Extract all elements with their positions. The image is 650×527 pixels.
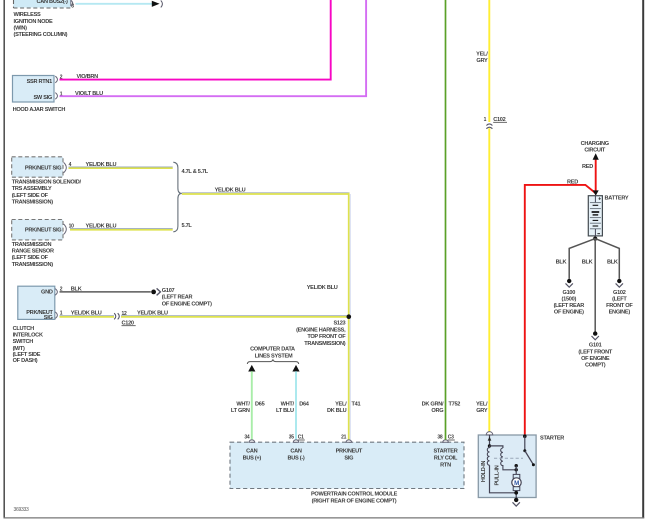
svg-text:ENGINE): ENGINE)	[609, 310, 631, 316]
svg-text:CAN: CAN	[246, 449, 258, 455]
ground G102 caption	[606, 290, 633, 316]
clutch switch caption	[13, 326, 43, 364]
svg-text:369333: 369333	[14, 507, 30, 513]
wire YEL/DK BLU vertical run to PCM pin 21	[349, 193, 351, 440]
computer data lines brace	[247, 359, 298, 364]
svg-text:(LEFT SIDE OF: (LEFT SIDE OF	[12, 193, 49, 199]
svg-text:YEL/DK BLU: YEL/DK BLU	[137, 311, 168, 317]
svg-text:CAN BUS2(-): CAN BUS2(-)	[37, 0, 69, 5]
border frame right	[642, 0, 644, 518]
PCM pin bump 38	[443, 440, 449, 442]
starter ground symbol	[513, 498, 520, 506]
svg-text:WHT/: WHT/	[281, 402, 295, 408]
svg-text:WHT/: WHT/	[236, 402, 250, 408]
svg-text:SW SIG: SW SIG	[33, 95, 52, 101]
PCM caption	[311, 491, 398, 504]
connector name C102	[493, 117, 507, 123]
wire YEL/DK BLU from clutch pin 1 to C120	[60, 316, 115, 317]
svg-text:TRANSMISSION): TRANSMISSION)	[12, 200, 54, 206]
merge brace	[173, 162, 182, 232]
svg-text:(LEFT SIDE OF: (LEFT SIDE OF	[12, 255, 49, 261]
range sensor pin bracket	[64, 224, 67, 234]
off-page arrow CAN bus (-)	[292, 365, 299, 372]
svg-text:OF DASH): OF DASH)	[13, 358, 38, 364]
in-line connector C120 symbol	[114, 313, 119, 319]
off-page arrow for CAN wire	[152, 1, 160, 7]
svg-text:RED: RED	[567, 179, 578, 185]
PCM connector name C3	[448, 435, 455, 441]
wire BLK to G101	[594, 239, 596, 332]
computer data lines system caption	[250, 347, 295, 360]
svg-text:FRONT OF: FRONT OF	[606, 303, 633, 309]
switch blade	[525, 451, 534, 465]
svg-text:YEL/: YEL/	[476, 402, 488, 408]
clutch GND pin bracket	[55, 289, 57, 296]
svg-text:(ENGINE HARNESS,: (ENGINE HARNESS,	[296, 327, 346, 333]
solenoid pin bracket	[64, 162, 67, 172]
switch feed node	[523, 434, 527, 438]
PCM pin label CAN BUS (+)	[243, 449, 262, 462]
svg-text:POWERTRAIN CONTROL MODULE: POWERTRAIN CONTROL MODULE	[311, 491, 398, 497]
svg-text:PULL-IN: PULL-IN	[494, 465, 500, 485]
svg-text:SIG: SIG	[44, 315, 53, 321]
PCM pin bump 35	[293, 440, 299, 442]
svg-text:OF ENGINE COMPT): OF ENGINE COMPT)	[162, 301, 212, 307]
wire hold-in coil to bottom	[490, 465, 517, 493]
pull-in coil	[501, 448, 517, 470]
wire RED from starter to battery	[525, 185, 596, 436]
svg-text:TRS ASSEMBLY: TRS ASSEMBLY	[12, 186, 52, 192]
svg-text:OF ENGINE): OF ENGINE)	[554, 310, 584, 316]
junction node pull-in to motor	[515, 468, 518, 471]
svg-text:DK GRN/: DK GRN/	[422, 402, 444, 408]
svg-text:CHARGING: CHARGING	[581, 141, 609, 147]
svg-text:GND: GND	[41, 290, 53, 296]
svg-text:HOOD AJAR SWITCH: HOOD AJAR SWITCH	[13, 107, 66, 113]
svg-text:T41: T41	[352, 402, 361, 408]
svg-text:SIG: SIG	[344, 456, 353, 462]
svg-text:34: 34	[244, 435, 250, 441]
svg-text:STARTER: STARTER	[433, 449, 457, 455]
wire BLK from clutch GND	[60, 291, 151, 293]
pin arrow into starter connector	[488, 437, 492, 441]
mechanical linkage dashed	[494, 457, 523, 459]
pin bracket 1	[55, 93, 57, 100]
svg-text:YEL/DK BLU: YEL/DK BLU	[307, 285, 338, 291]
svg-text:G100: G100	[563, 290, 576, 296]
svg-text:YEL/DK BLU: YEL/DK BLU	[86, 224, 117, 230]
svg-text:21: 21	[341, 435, 347, 441]
svg-text:G101: G101	[589, 343, 602, 349]
off-page arrow CAN bus (+)	[248, 365, 255, 372]
PCM pin label CAN BUS (-)	[288, 449, 305, 462]
off-page connector bracket	[161, 0, 163, 7]
svg-text:WIRELESS: WIRELESS	[14, 12, 42, 18]
wire YEL/DK BLU from C120 to S123	[121, 316, 350, 317]
wire label YEL/DK BLU (at PCM)	[327, 402, 347, 415]
wire from connector to coils	[489, 435, 491, 446]
wire RED to charging circuit	[595, 160, 597, 193]
junction node at starter bottom	[514, 491, 518, 495]
charging circuit caption	[581, 141, 609, 153]
ground G102 symbol	[616, 279, 623, 287]
wire label DK GRN/ORG (at PCM)	[422, 402, 444, 415]
svg-text:GRY: GRY	[476, 408, 488, 414]
starter feed connector bump	[486, 432, 493, 435]
svg-text:LT GRN: LT GRN	[231, 408, 250, 414]
PCM pin bump 21	[346, 440, 352, 442]
wire VIO/LT BLU (violet)	[60, 0, 367, 96]
svg-text:35: 35	[289, 435, 295, 441]
wire DK GRN/ORG vertical run to PCM pin 38	[445, 0, 447, 440]
transmission solenoid / TRS assembly box	[12, 157, 63, 177]
connector name C120	[122, 320, 136, 326]
svg-text:G102: G102	[613, 290, 626, 296]
svg-text:PRK/NEUT SIG: PRK/NEUT SIG	[25, 228, 61, 234]
svg-text:PRK/NEUT SIG: PRK/NEUT SIG	[25, 166, 61, 172]
range sensor caption	[12, 242, 54, 268]
svg-text:RTN: RTN	[440, 463, 451, 469]
starter box	[478, 435, 536, 498]
svg-text:5.7L: 5.7L	[182, 223, 193, 229]
svg-text:YEL/DK BLU: YEL/DK BLU	[86, 162, 117, 168]
svg-text:BLK: BLK	[556, 260, 567, 266]
junction node at coil tops	[488, 444, 491, 447]
wire WHT/LT GRN	[251, 371, 253, 440]
svg-text:D64: D64	[299, 402, 310, 408]
svg-text:TOP FRONT OF: TOP FRONT OF	[307, 334, 346, 340]
svg-text:LINES SYSTEM: LINES SYSTEM	[255, 354, 293, 360]
battery	[588, 196, 602, 236]
starter motor M	[512, 474, 521, 490]
svg-text:COMPT): COMPT)	[585, 363, 606, 369]
wire WHT/LT BLU	[295, 371, 297, 440]
svg-text:38: 38	[437, 435, 443, 441]
switch contact node	[532, 463, 535, 466]
wire YEL/DK BLU from range sensor pin 10	[70, 229, 173, 230]
PCM pin label STARTER RLY COIL RTN	[433, 449, 458, 469]
svg-text:YEL/: YEL/	[476, 52, 488, 58]
wire VIO/BRN (magenta)	[60, 0, 331, 80]
hood ajar switch box	[13, 76, 55, 103]
svg-text:CAN: CAN	[290, 449, 302, 455]
svg-text:IGNITION NODE: IGNITION NODE	[14, 19, 53, 25]
wire label YEL/GRY (upper)	[476, 52, 488, 65]
wire CAN BUS2 (light blue)	[76, 3, 153, 5]
svg-text:VIO/LT BLU: VIO/LT BLU	[75, 91, 103, 97]
pin bracket 2	[55, 76, 57, 83]
ground G107 symbol	[151, 288, 160, 295]
off-page arrow to charging circuit	[593, 153, 599, 160]
svg-text:BLK: BLK	[582, 260, 593, 266]
WIN pin bracket	[71, 0, 73, 6]
svg-text:(LEFT REAR: (LEFT REAR	[162, 295, 193, 301]
svg-text:SWITCH: SWITCH	[13, 339, 34, 345]
svg-text:+: +	[598, 197, 601, 203]
ground G100 symbol	[566, 279, 573, 287]
switch pivot node	[523, 449, 526, 452]
PCM pin label PRK/NEUT SIG	[336, 449, 363, 462]
svg-text:1: 1	[484, 117, 487, 123]
junction node above motor	[515, 464, 518, 467]
svg-text:RLY COIL: RLY COIL	[434, 456, 458, 462]
svg-text:STARTER: STARTER	[540, 436, 564, 442]
svg-text:(WIN): (WIN)	[14, 25, 28, 31]
wire YEL/DK BLU from solenoid pin 4	[69, 167, 173, 168]
wire to pull-in coil top	[490, 446, 503, 448]
svg-text:CIRCUIT: CIRCUIT	[584, 147, 606, 153]
wire label WHT/LT BLU	[276, 402, 295, 415]
splice S123 caption	[296, 321, 346, 347]
svg-text:INTERLOCK: INTERLOCK	[13, 332, 43, 338]
svg-text:YEL/DK BLU: YEL/DK BLU	[215, 188, 246, 194]
svg-text:(1500): (1500)	[562, 296, 577, 302]
battery negative junction node	[593, 237, 597, 241]
svg-text:S123: S123	[333, 321, 345, 327]
svg-text:DK BLU: DK BLU	[327, 408, 347, 414]
powertrain control module box	[230, 442, 464, 488]
ground G101 caption	[578, 343, 612, 369]
svg-text:RED: RED	[582, 164, 593, 170]
svg-text:PRK/NEUT: PRK/NEUT	[336, 449, 363, 455]
svg-text:OF ENGINE: OF ENGINE	[581, 356, 610, 362]
switch wire	[524, 436, 526, 451]
svg-text:3: 3	[71, 4, 74, 10]
svg-text:COMPUTER DATA: COMPUTER DATA	[250, 347, 295, 353]
svg-text:GRY: GRY	[476, 58, 488, 64]
svg-text:YEL/DK BLU: YEL/DK BLU	[71, 311, 102, 317]
svg-text:HOLD-IN: HOLD-IN	[481, 461, 487, 483]
transmission range sensor box	[12, 220, 63, 240]
wire YEL/DK BLU merged horizontal run	[182, 193, 350, 194]
wire label YEL/GRY (at starter)	[476, 402, 488, 415]
clutch SIG pin bracket	[55, 312, 57, 319]
PCM pin bump 34	[249, 440, 255, 442]
svg-text:CLUTCH: CLUTCH	[13, 326, 35, 332]
svg-text:4.7L & 5.7L: 4.7L & 5.7L	[182, 169, 209, 175]
svg-text:TRANSMISSION): TRANSMISSION)	[12, 262, 54, 268]
wire BLK to G102	[595, 239, 619, 279]
splice node S123	[347, 314, 352, 319]
ground G101 symbol	[592, 331, 599, 339]
svg-text:ORG: ORG	[431, 408, 443, 414]
svg-text:BUS (-): BUS (-)	[288, 456, 305, 462]
svg-text:T752: T752	[449, 402, 461, 408]
solenoid caption	[12, 180, 82, 206]
svg-text:BATTERY: BATTERY	[605, 196, 629, 202]
svg-text:BUS (+): BUS (+)	[243, 456, 262, 462]
svg-text:M: M	[514, 480, 519, 487]
svg-text:(LEFT FRONT: (LEFT FRONT	[578, 349, 612, 355]
wire motor to ground	[515, 491, 517, 499]
svg-text:TRANSMISSION SOLENOID/: TRANSMISSION SOLENOID/	[12, 180, 82, 186]
hold-in coil	[487, 446, 489, 465]
wire to motor	[515, 466, 517, 475]
wire YEL/GRY vertical run to starter	[488, 0, 490, 432]
svg-text:VIO/BRN: VIO/BRN	[77, 74, 99, 80]
clutch interlock switch box	[18, 286, 55, 319]
border frame left	[3, 0, 5, 518]
svg-text:TRANSMISSION: TRANSMISSION	[12, 242, 52, 248]
in-line connector C102 symbol	[486, 124, 492, 129]
svg-text:TRANSMISSION): TRANSMISSION)	[304, 341, 346, 347]
svg-text:(LEFT: (LEFT	[612, 296, 627, 302]
svg-text:BLK: BLK	[71, 286, 82, 292]
ground G100 caption	[554, 290, 585, 316]
svg-text:YEL/: YEL/	[335, 402, 347, 408]
wire BLK to G100	[569, 239, 595, 279]
svg-text:(LEFT REAR: (LEFT REAR	[554, 303, 585, 309]
svg-text:LT BLU: LT BLU	[276, 408, 294, 414]
svg-text:G107: G107	[162, 288, 175, 294]
svg-text:BLK: BLK	[607, 260, 618, 266]
clutch pin label PRK/NEUT SIG	[26, 310, 53, 321]
PCM connector name C1	[298, 435, 305, 441]
border frame bottom	[4, 517, 645, 519]
wire label WHT/LT GRN	[231, 402, 250, 415]
svg-text:D65: D65	[255, 402, 265, 408]
wireless ignition node WIN box (cut at top)	[13, 0, 71, 8]
WIN caption text	[14, 12, 68, 38]
svg-text:SSR RTN1: SSR RTN1	[27, 79, 53, 85]
svg-text:(RIGHT REAR OF ENGINE COMPT): (RIGHT REAR OF ENGINE COMPT)	[312, 499, 397, 505]
svg-text:(STEERING COLUMN): (STEERING COLUMN)	[14, 32, 68, 38]
svg-text:(M/T): (M/T)	[13, 346, 25, 352]
ground G107 caption	[162, 288, 212, 307]
arrow into battery positive	[593, 190, 599, 195]
svg-text:RANGE SENSOR: RANGE SENSOR	[12, 249, 54, 255]
